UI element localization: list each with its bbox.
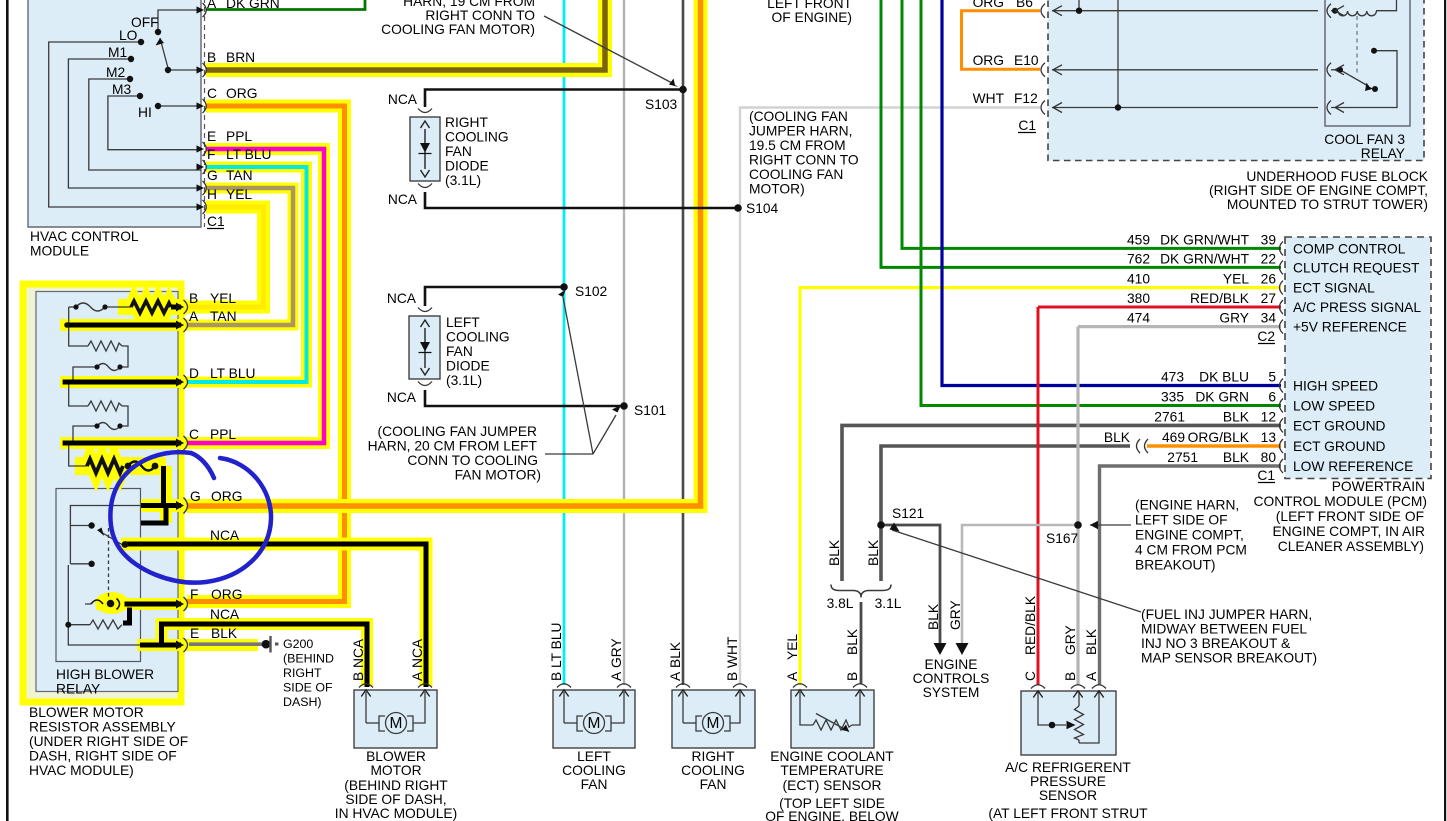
svg-text:LO: LO	[119, 28, 138, 43]
svg-text:NCA: NCA	[210, 607, 240, 622]
svg-text:HVAC MODULE): HVAC MODULE)	[29, 763, 134, 778]
svg-text:COOLING FAN MOTOR): COOLING FAN MOTOR)	[381, 22, 535, 37]
svg-text:S167: S167	[1046, 531, 1078, 546]
svg-text:27: 27	[1261, 291, 1276, 306]
svg-text:E: E	[207, 129, 216, 144]
svg-text:F: F	[207, 147, 215, 162]
svg-text:GRY: GRY	[1219, 311, 1249, 326]
svg-text:A: A	[609, 671, 624, 681]
svg-text:S103: S103	[645, 97, 678, 112]
svg-text:IN HVAC MODULE): IN HVAC MODULE)	[335, 806, 457, 821]
svg-text:F: F	[190, 587, 198, 602]
svg-text:C2: C2	[1257, 329, 1275, 344]
svg-text:(ECT) SENSOR: (ECT) SENSOR	[783, 778, 882, 793]
svg-text:M: M	[707, 715, 720, 732]
svg-text:(COOLING FAN JUMPER: (COOLING FAN JUMPER	[378, 424, 537, 439]
svg-text:(FUEL INJ JUMPER HARN,: (FUEL INJ JUMPER HARN,	[1141, 607, 1312, 622]
svg-text:BLK: BLK	[1223, 409, 1250, 424]
svg-text:A: A	[668, 671, 683, 681]
svg-text:459: 459	[1127, 232, 1150, 247]
svg-text:6: 6	[1268, 390, 1276, 405]
svg-text:LT BLU: LT BLU	[549, 623, 564, 669]
svg-text:COOLING: COOLING	[562, 763, 626, 778]
svg-text:(RIGHT SIDE OF ENGINE COMPT,: (RIGHT SIDE OF ENGINE COMPT,	[1209, 183, 1428, 198]
svg-text:G: G	[190, 489, 201, 504]
svg-text:B: B	[725, 672, 740, 681]
svg-text:4 CM FROM PCM: 4 CM FROM PCM	[1135, 543, 1247, 558]
svg-text:YEL: YEL	[1223, 272, 1249, 287]
svg-text:LT BLU: LT BLU	[226, 147, 272, 162]
svg-text:A: A	[1084, 671, 1099, 681]
svg-text:MIDWAY BETWEEN FUEL: MIDWAY BETWEEN FUEL	[1141, 622, 1307, 637]
svg-text:DASH, RIGHT SIDE OF: DASH, RIGHT SIDE OF	[29, 749, 177, 764]
svg-text:SIDE OF: SIDE OF	[283, 681, 333, 695]
svg-text:S104: S104	[746, 201, 779, 216]
svg-text:G200: G200	[283, 637, 313, 651]
svg-text:D: D	[189, 366, 199, 381]
svg-text:ECT SIGNAL: ECT SIGNAL	[1293, 281, 1375, 296]
svg-text:NCA: NCA	[410, 638, 425, 668]
svg-text:S102: S102	[575, 284, 607, 299]
svg-text:HI: HI	[138, 105, 152, 120]
svg-text:(3.1L): (3.1L)	[445, 173, 481, 188]
svg-text:80: 80	[1261, 450, 1277, 465]
svg-text:COMP CONTROL: COMP CONTROL	[1293, 241, 1406, 256]
svg-text:RIGHT: RIGHT	[445, 115, 488, 130]
svg-text:469: 469	[1162, 430, 1185, 445]
svg-text:B6: B6	[1016, 0, 1033, 10]
svg-text:CONTROLS: CONTROLS	[913, 671, 990, 686]
svg-text:ENGINE COMPT, IN AIR: ENGINE COMPT, IN AIR	[1272, 524, 1425, 539]
svg-text:OF ENGINE): OF ENGINE)	[772, 10, 852, 25]
svg-text:FAN: FAN	[581, 777, 608, 792]
svg-text:ORG: ORG	[211, 587, 242, 602]
svg-text:CLEANER ASSEMBLY): CLEANER ASSEMBLY)	[1278, 539, 1424, 554]
svg-text:473: 473	[1161, 370, 1184, 385]
svg-text:2761: 2761	[1154, 409, 1185, 424]
svg-text:RIGHT CONN TO: RIGHT CONN TO	[749, 153, 859, 168]
svg-text:SYSTEM: SYSTEM	[923, 685, 980, 700]
svg-text:E: E	[190, 626, 199, 641]
svg-text:PRESSURE: PRESSURE	[1030, 774, 1106, 789]
svg-text:HARN, 20 CM FROM LEFT: HARN, 20 CM FROM LEFT	[368, 439, 538, 454]
svg-text:S121: S121	[892, 506, 924, 521]
svg-text:COOLING: COOLING	[445, 130, 509, 145]
svg-text:RELAY: RELAY	[56, 682, 100, 697]
svg-text:12: 12	[1261, 409, 1276, 424]
svg-text:(LEFT FRONT SIDE OF: (LEFT FRONT SIDE OF	[1276, 509, 1424, 524]
svg-text:MAP SENSOR BREAKOUT): MAP SENSOR BREAKOUT)	[1141, 651, 1317, 666]
svg-text:BLK: BLK	[866, 539, 881, 566]
svg-text:DK BLU: DK BLU	[1199, 370, 1249, 385]
svg-text:DK GRN/WHT: DK GRN/WHT	[1160, 251, 1249, 266]
svg-text:OF ENGINE, BELOW: OF ENGINE, BELOW	[765, 809, 898, 821]
svg-text:RIGHT: RIGHT	[283, 666, 322, 680]
svg-text:CLUTCH REQUEST: CLUTCH REQUEST	[1293, 260, 1420, 275]
svg-text:BLK: BLK	[845, 628, 860, 655]
svg-text:ORG/BLK: ORG/BLK	[1188, 430, 1250, 445]
svg-text:(UNDER RIGHT SIDE OF: (UNDER RIGHT SIDE OF	[29, 734, 188, 749]
svg-text:2751: 2751	[1167, 450, 1198, 465]
svg-text:ORG: ORG	[226, 86, 257, 101]
svg-text:LOW SPEED: LOW SPEED	[1293, 399, 1375, 414]
svg-text:LOW REFERENCE: LOW REFERENCE	[1293, 459, 1413, 474]
svg-text:RELAY: RELAY	[1361, 146, 1405, 161]
svg-text:FAN: FAN	[700, 777, 727, 792]
svg-text:YEL: YEL	[785, 634, 800, 660]
svg-text:A: A	[785, 671, 800, 681]
svg-text:380: 380	[1127, 291, 1150, 306]
svg-text:BLK: BLK	[926, 603, 941, 630]
svg-text:LEFT SIDE OF: LEFT SIDE OF	[1135, 513, 1228, 528]
svg-text:SENSOR: SENSOR	[1039, 788, 1097, 803]
svg-text:NCA: NCA	[388, 92, 418, 107]
svg-text:BLK: BLK	[668, 641, 683, 668]
svg-text:BLK: BLK	[1084, 628, 1099, 655]
svg-text:(COOLING FAN: (COOLING FAN	[749, 109, 848, 124]
svg-text:YEL: YEL	[210, 291, 236, 306]
svg-text:S101: S101	[634, 403, 666, 418]
svg-text:C: C	[207, 86, 217, 101]
svg-text:HIGH SPEED: HIGH SPEED	[1293, 379, 1378, 394]
svg-text:762: 762	[1127, 251, 1150, 266]
svg-text:CONN TO COOLING: CONN TO COOLING	[407, 453, 538, 468]
svg-text:UNDERHOOD FUSE BLOCK: UNDERHOOD FUSE BLOCK	[1246, 169, 1428, 184]
svg-text:3.1L: 3.1L	[875, 596, 902, 611]
svg-text:M: M	[390, 715, 403, 732]
svg-text:BLK: BLK	[827, 539, 842, 566]
svg-text:M3: M3	[112, 82, 131, 97]
svg-text:BREAKOUT): BREAKOUT)	[1135, 558, 1216, 573]
svg-text:(BEHIND RIGHT: (BEHIND RIGHT	[344, 778, 448, 793]
svg-text:C: C	[189, 427, 199, 442]
svg-text:GRY: GRY	[948, 600, 963, 630]
svg-text:DK GRN: DK GRN	[1195, 390, 1249, 405]
svg-text:C1: C1	[1257, 468, 1275, 483]
svg-text:474: 474	[1127, 311, 1150, 326]
svg-text:3.8L: 3.8L	[827, 596, 854, 611]
svg-text:H: H	[207, 187, 217, 202]
svg-text:RIGHT: RIGHT	[692, 749, 735, 764]
svg-text:(AT LEFT FRONT STRUT: (AT LEFT FRONT STRUT	[988, 806, 1148, 821]
svg-text:5: 5	[1268, 370, 1276, 385]
svg-text:GRY: GRY	[1063, 625, 1078, 655]
svg-text:ECT GROUND: ECT GROUND	[1293, 439, 1386, 454]
svg-text:HIGH BLOWER: HIGH BLOWER	[56, 667, 154, 682]
svg-text:DK GRN: DK GRN	[226, 0, 280, 11]
svg-text:MODULE: MODULE	[30, 244, 89, 259]
svg-text:YEL: YEL	[226, 187, 252, 202]
svg-text:JUMPER HARN,: JUMPER HARN,	[749, 124, 852, 139]
svg-text:ORG: ORG	[211, 489, 242, 504]
svg-text:ENGINE COOLANT: ENGINE COOLANT	[770, 749, 894, 764]
svg-text:F12: F12	[1014, 91, 1038, 106]
svg-text:LEFT: LEFT	[446, 315, 480, 330]
svg-text:RED/BLK: RED/BLK	[1023, 595, 1038, 655]
svg-text:BLOWER: BLOWER	[366, 749, 426, 764]
svg-text:M1: M1	[108, 45, 127, 60]
svg-text:C: C	[1023, 671, 1038, 681]
svg-text:+5V REFERENCE: +5V REFERENCE	[1293, 320, 1407, 335]
svg-text:(BEHIND: (BEHIND	[283, 652, 334, 666]
svg-text:FAN MOTOR): FAN MOTOR)	[455, 468, 541, 483]
svg-text:B: B	[1063, 672, 1078, 681]
svg-text:39: 39	[1261, 232, 1277, 247]
svg-text:TAN: TAN	[226, 168, 253, 183]
svg-text:COOL FAN 3: COOL FAN 3	[1324, 132, 1405, 147]
svg-text:26: 26	[1261, 272, 1277, 287]
svg-text:BLK: BLK	[211, 626, 238, 641]
svg-text:ORG: ORG	[973, 0, 1004, 10]
svg-text:PPL: PPL	[226, 129, 252, 144]
svg-text:COOLING: COOLING	[446, 330, 510, 345]
svg-text:335: 335	[1161, 390, 1184, 405]
svg-text:TEMPERATURE: TEMPERATURE	[780, 763, 883, 778]
svg-text:19.5 CM FROM: 19.5 CM FROM	[749, 138, 846, 153]
svg-text:CONTROL MODULE (PCM): CONTROL MODULE (PCM)	[1254, 494, 1428, 509]
svg-text:A: A	[189, 309, 199, 324]
svg-text:RIGHT CONN TO: RIGHT CONN TO	[425, 8, 535, 23]
svg-text:WHT: WHT	[973, 91, 1005, 106]
svg-text:BLOWER MOTOR: BLOWER MOTOR	[29, 705, 144, 720]
svg-text:BLK: BLK	[1223, 450, 1250, 465]
svg-text:13: 13	[1261, 430, 1277, 445]
svg-text:MOTOR: MOTOR	[370, 763, 421, 778]
svg-text:DIODE: DIODE	[446, 359, 490, 374]
svg-text:ECT GROUND: ECT GROUND	[1293, 418, 1386, 433]
svg-text:MOUNTED TO STRUT TOWER): MOUNTED TO STRUT TOWER)	[1227, 197, 1428, 212]
svg-text:INJ NO 3 BREAKOUT &: INJ NO 3 BREAKOUT &	[1141, 636, 1290, 651]
svg-text:COOLING: COOLING	[681, 763, 745, 778]
svg-text:SIDE OF DASH,: SIDE OF DASH,	[345, 792, 446, 807]
svg-text:COOLING FAN: COOLING FAN	[749, 167, 843, 182]
svg-text:22: 22	[1261, 251, 1276, 266]
svg-text:ORG: ORG	[973, 53, 1004, 68]
svg-text:RESISTOR ASSEMBLY: RESISTOR ASSEMBLY	[29, 720, 176, 735]
svg-text:HVAC CONTROL: HVAC CONTROL	[30, 229, 139, 244]
svg-text:FAN: FAN	[446, 344, 473, 359]
svg-text:A: A	[410, 671, 425, 681]
svg-text:FAN: FAN	[445, 144, 472, 159]
svg-text:PPL: PPL	[210, 427, 236, 442]
svg-text:34: 34	[1261, 311, 1277, 326]
svg-text:E10: E10	[1014, 53, 1039, 68]
svg-text:MOTOR): MOTOR)	[749, 182, 805, 197]
svg-text:POWERTRAIN: POWERTRAIN	[1332, 479, 1425, 494]
svg-text:B: B	[351, 672, 366, 681]
svg-text:A: A	[207, 0, 217, 11]
svg-text:A/C REFRIGERENT: A/C REFRIGERENT	[1005, 760, 1131, 775]
svg-text:DIODE: DIODE	[445, 159, 489, 174]
svg-text:B: B	[189, 291, 198, 306]
svg-text:DASH): DASH)	[283, 695, 322, 709]
svg-text:ENGINE: ENGINE	[925, 657, 978, 672]
svg-text:LEFT: LEFT	[577, 749, 611, 764]
svg-text:410: 410	[1127, 272, 1150, 287]
svg-text:C1: C1	[207, 214, 225, 229]
svg-text:B: B	[207, 50, 216, 65]
svg-text:NCA: NCA	[387, 291, 417, 306]
svg-text:RED/BLK: RED/BLK	[1190, 291, 1250, 306]
svg-text:A/C PRESS SIGNAL: A/C PRESS SIGNAL	[1293, 300, 1421, 315]
svg-text:M: M	[588, 715, 601, 732]
svg-text:G: G	[207, 168, 218, 183]
svg-text:BRN: BRN	[226, 50, 255, 65]
svg-text:M2: M2	[106, 65, 125, 80]
svg-text:NCA: NCA	[351, 638, 366, 668]
svg-text:WHT: WHT	[725, 636, 740, 668]
svg-text:NCA: NCA	[388, 192, 418, 207]
svg-text:DK GRN/WHT: DK GRN/WHT	[1160, 232, 1249, 247]
svg-text:LT BLU: LT BLU	[210, 366, 256, 381]
svg-text:TAN: TAN	[210, 309, 237, 324]
svg-text:C1: C1	[1018, 118, 1036, 133]
svg-text:B: B	[549, 672, 564, 681]
svg-text:(ENGINE HARN,: (ENGINE HARN,	[1135, 498, 1239, 513]
svg-text:NCA: NCA	[387, 390, 417, 405]
svg-text:(3.1L): (3.1L)	[446, 373, 482, 388]
svg-text:NCA: NCA	[210, 528, 240, 543]
svg-text:GRY: GRY	[609, 638, 624, 668]
svg-text:B: B	[845, 672, 860, 681]
svg-text:ENGINE COMPT,: ENGINE COMPT,	[1135, 528, 1244, 543]
svg-text:BLK: BLK	[1104, 430, 1131, 445]
